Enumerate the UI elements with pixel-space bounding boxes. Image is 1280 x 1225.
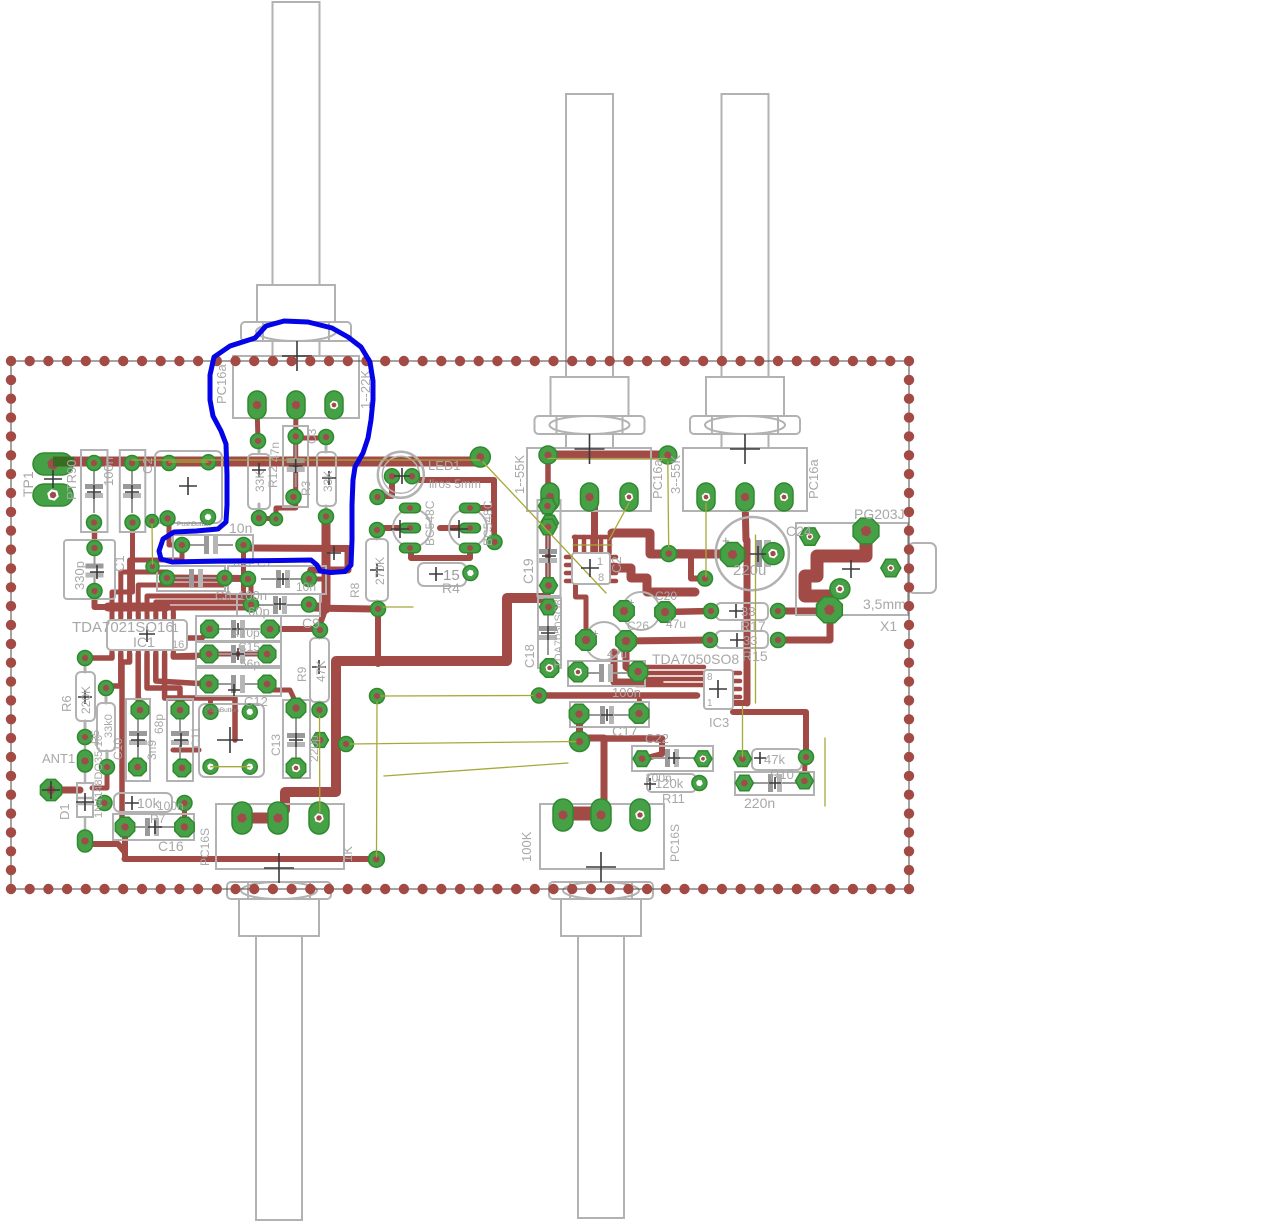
pushbutton S1 outline <box>155 451 222 523</box>
svg-text:C2: C2 <box>140 457 155 474</box>
C12 pads <box>200 675 218 693</box>
R9 pads <box>313 623 328 638</box>
capacitor C22 outline <box>632 746 713 771</box>
vias pot P2 net <box>539 446 557 464</box>
capacitor C13 outline <box>283 700 310 778</box>
wire D1 bottom right <box>85 844 125 852</box>
svg-text:1: 1 <box>172 621 179 635</box>
wire 330p bottom to IC1 <box>95 591 111 607</box>
LED1 outline <box>378 452 424 498</box>
board outline dotted border <box>11 361 909 889</box>
C23 pads <box>735 775 753 791</box>
C17 pads <box>569 704 588 723</box>
svg-text:16: 16 <box>172 639 184 651</box>
wire R5 bottom <box>92 767 107 788</box>
wire IC2 right elbows <box>612 533 727 554</box>
svg-text:3,5mm: 3,5mm <box>863 596 906 612</box>
wire C3 top link R2 <box>296 436 326 441</box>
svg-text:R17: R17 <box>740 618 766 634</box>
wire ring548 down to C19 <box>545 455 551 607</box>
svg-text:33K: 33K <box>321 471 335 492</box>
capacitor C6 outline row C <box>237 594 320 616</box>
capacitor C14 outline <box>196 616 281 641</box>
airwire S2 <box>211 766 250 768</box>
capacitor C8 68p outline <box>167 699 193 781</box>
svg-text:R4: R4 <box>442 580 460 596</box>
wire row B bridge <box>167 575 248 583</box>
resistor R2 outline <box>317 452 336 506</box>
capacitor C15 outline <box>196 642 281 666</box>
resistor R15 outline <box>716 631 768 648</box>
svg-text:+: + <box>722 533 730 548</box>
wire pot P1 left pad down <box>257 405 258 441</box>
wire pot P2 mid down to IC2 <box>590 497 595 553</box>
D1 bottom pad <box>78 830 93 852</box>
airwire R9 to pot P4 <box>319 716 321 812</box>
resistor R5 outline <box>97 703 115 751</box>
svg-text:IC1: IC1 <box>133 634 155 650</box>
airwire sloped <box>384 763 568 776</box>
svg-text:TP1: TP1 <box>20 471 36 497</box>
svg-text:C10: C10 <box>111 738 125 760</box>
capacitor column A outline <box>81 450 108 532</box>
wire via P3 elbow <box>691 554 705 579</box>
potentiometer P2 collar <box>551 377 629 416</box>
svg-text:220p: 220p <box>307 735 321 762</box>
wire C3 through <box>293 436 298 496</box>
potentiometer P5 shaft <box>578 936 624 1218</box>
wire IC3 to R10 <box>733 712 806 757</box>
svg-text:R6: R6 <box>59 695 74 712</box>
via pad right of main net <box>470 447 490 467</box>
airwire ring667 down <box>667 462 670 547</box>
via bottom net <box>368 851 384 867</box>
C19 pads <box>539 498 557 514</box>
wire comb above IC1 <box>112 592 133 616</box>
wire C1 down to comb <box>130 523 135 592</box>
R11 pad <box>692 776 707 791</box>
svg-text:C2: C2 <box>609 556 624 573</box>
wire C26 right to R17 <box>665 611 711 612</box>
svg-text:PC16a: PC16a <box>650 458 665 499</box>
C8 pads <box>171 701 189 719</box>
C18 pads <box>540 599 558 615</box>
svg-text:PC16a: PC16a <box>806 458 821 499</box>
C4 pads <box>160 571 175 586</box>
wire bottom long net <box>125 856 377 862</box>
svg-text:C24: C24 <box>786 523 812 539</box>
potentiometer P1 neck <box>273 341 320 356</box>
wire IC2 left vertical <box>576 537 587 636</box>
capacitor C12 outline <box>196 668 281 696</box>
330p pads <box>87 541 102 556</box>
svg-text:8: 8 <box>598 572 604 584</box>
via C17 below <box>570 732 590 752</box>
wire R7 right down <box>182 803 187 827</box>
potentiometer P5 body <box>540 804 664 869</box>
wire IC3 right to pot3 net <box>733 700 747 706</box>
pushbutton S2 outline <box>199 704 264 777</box>
potentiometer P1 shaft <box>273 2 320 285</box>
transistor T2 outline <box>449 509 487 547</box>
R4 pad <box>463 566 478 581</box>
svg-text:100n: 100n <box>157 799 184 813</box>
svg-text:TDA7050SO8: TDA7050SO8 <box>652 651 739 667</box>
wire ANT1 <box>51 787 80 794</box>
wire pot P1 mid pad down <box>293 405 298 436</box>
svg-text:100n: 100n <box>238 588 267 603</box>
wire C7 right stub <box>241 545 246 570</box>
svg-text:1K: 1K <box>340 846 355 862</box>
capacitor C21 outline <box>568 661 645 686</box>
svg-text:R11: R11 <box>662 791 685 806</box>
C14 pads <box>201 620 219 638</box>
resistor R10 outline <box>752 749 802 770</box>
svg-text:PC16a: PC16a <box>214 363 229 404</box>
resistor R11 outline <box>647 774 696 792</box>
svg-text:PushButton: PushButton <box>205 707 239 714</box>
svg-text:C1: C1 <box>112 555 127 572</box>
svg-text:PushButton: PushButton <box>177 521 211 528</box>
svg-text:8: 8 <box>707 672 713 683</box>
C22 pads <box>633 751 651 767</box>
cap A pads <box>87 456 102 471</box>
wire R10-C23 link <box>802 760 808 781</box>
capacitor C26 outline <box>622 592 660 630</box>
svg-text:BC548C: BC548C <box>481 500 495 546</box>
wire pot P2 left stub <box>547 497 553 523</box>
wire TP1 main horizontal net <box>53 457 480 467</box>
svg-text:47k: 47k <box>764 752 785 767</box>
svg-text:3--55K: 3--55K <box>668 455 683 494</box>
svg-text:R15: R15 <box>742 648 768 664</box>
wire pot P4 riser to right net <box>278 598 548 818</box>
svg-text:220K: 220K <box>79 686 93 714</box>
svg-text:3n9: 3n9 <box>145 740 159 760</box>
C6 pads <box>244 597 259 612</box>
wire row pads right links <box>309 577 321 582</box>
airwire along main net <box>132 459 480 461</box>
airwire long y695 <box>381 695 533 698</box>
potentiometer P5 nut <box>549 882 653 899</box>
svg-text:47u: 47u <box>607 647 627 661</box>
R12 pads <box>251 434 266 449</box>
svg-text:TDA7021SO16: TDA7021SO16 <box>72 619 174 636</box>
wire IC3 left bus <box>636 665 704 670</box>
wire y695 to IC3 <box>545 692 697 699</box>
svg-text:PTR90: PTR90 <box>64 460 79 500</box>
svg-text:47n: 47n <box>268 442 282 462</box>
wire elco C24 feed <box>669 549 727 558</box>
R5 pads <box>99 681 114 696</box>
capacitor C3 outline <box>283 426 308 507</box>
pot P4 pads <box>232 802 252 834</box>
capacitor C16 outline <box>113 814 194 840</box>
svg-text:C19: C19 <box>520 558 536 584</box>
potentiometer P3 collar <box>706 377 784 416</box>
capacitor C23 220n outline <box>735 772 814 795</box>
svg-text:C9: C9 <box>302 615 320 631</box>
wire pot P5 riser <box>563 720 604 815</box>
op-amp IC1 TDA7021SO16 outline <box>107 620 187 650</box>
wire R2 down long to R9 <box>322 517 331 609</box>
wire pot P5 bridge <box>563 810 601 821</box>
svg-text:270K: 270K <box>373 557 387 585</box>
wire C17 via link <box>576 716 582 741</box>
svg-text:C20: C20 <box>655 589 677 603</box>
svg-text:33k0: 33k0 <box>103 714 115 738</box>
airwire diagonal LED to IC2 <box>483 462 606 593</box>
wire pot P3 mid long down <box>745 497 747 703</box>
svg-text:PC16S: PC16S <box>198 828 212 866</box>
svg-text:IC3: IC3 <box>709 715 729 730</box>
wire fan below IC1 <box>88 654 112 658</box>
R8 pads <box>370 523 385 538</box>
T1 pads <box>370 490 385 505</box>
C25 pads <box>576 630 596 650</box>
svg-text:PC16S: PC16S <box>668 824 682 862</box>
resistor R6 outline <box>76 672 95 721</box>
wire S2 top <box>208 698 213 711</box>
potentiometer P4 shaft <box>256 936 302 1220</box>
potentiometer P5 collar <box>561 899 641 936</box>
capacitor C4 outline row B left <box>157 566 225 591</box>
pad under P2 left <box>541 515 559 531</box>
airwire x756 C24 to IC3 <box>755 535 757 703</box>
svg-text:C17: C17 <box>612 723 638 739</box>
svg-text:C26: C26 <box>627 619 649 633</box>
svg-text:10n: 10n <box>229 520 252 536</box>
svg-text:220u: 220u <box>733 562 766 579</box>
IC2 pins and bus <box>566 555 572 560</box>
wire pot P4 pads bridge <box>242 813 278 824</box>
resistor R17 outline <box>716 603 768 620</box>
airwire vertical x376 <box>376 702 379 857</box>
wire LED left pad down <box>379 478 392 496</box>
via P3 left <box>698 571 713 586</box>
via 668 <box>661 546 677 562</box>
vias x152 <box>146 515 159 528</box>
airwire x152 <box>151 524 154 564</box>
C7 pads <box>175 538 190 553</box>
C21 pads <box>568 662 587 681</box>
wire T1-T2 links <box>378 525 411 531</box>
svg-text:C13: C13 <box>269 734 283 756</box>
capacitor C24 outline <box>716 517 789 590</box>
svg-text:C6: C6 <box>215 588 232 603</box>
svg-text:R10: R10 <box>770 767 794 782</box>
svg-text:100n: 100n <box>612 685 641 700</box>
IC1 pins <box>110 614 115 621</box>
C1 pads <box>125 456 140 471</box>
jack X1 outline <box>796 523 908 615</box>
airwire R10 <box>742 706 744 757</box>
resistor R7 10k outline <box>114 793 172 812</box>
op-amp IC3 outline <box>704 670 733 709</box>
svg-text:C12: C12 <box>244 694 268 709</box>
svg-text:47u: 47u <box>666 617 686 631</box>
svg-text:R3: R3 <box>299 480 313 496</box>
svg-text:C22: C22 <box>645 731 669 746</box>
D1 top pad <box>78 750 93 772</box>
capacitor C18 outline <box>538 598 561 668</box>
via 539 <box>532 688 547 703</box>
airwire x825 <box>824 738 826 806</box>
airwire over bus <box>573 544 612 546</box>
IC3 pins <box>733 671 740 676</box>
svg-text:120k: 120k <box>655 776 684 791</box>
svg-text:1N4148DO35-10: 1N4148DO35-10 <box>93 735 105 818</box>
airwire S1 <box>169 461 208 463</box>
pot P1 pads <box>248 391 266 419</box>
R6 pads <box>78 651 93 666</box>
potentiometer P3 nut <box>690 416 800 434</box>
svg-text:X1: X1 <box>880 618 897 634</box>
svg-text:R12: R12 <box>266 466 280 488</box>
svg-text:33: 33 <box>743 633 757 648</box>
wire C25 right down <box>626 641 634 672</box>
svg-text:60p: 60p <box>248 604 270 619</box>
LED1 pads <box>385 469 400 484</box>
via x377 <box>370 689 385 704</box>
pot P3 pads <box>697 483 715 511</box>
wire C16 left to bottom net <box>122 827 128 859</box>
wire cap row horizontals <box>186 631 208 638</box>
svg-text:D1: D1 <box>57 803 72 820</box>
C10 pads <box>131 701 149 719</box>
airwire at R8 <box>383 606 413 608</box>
potentiometer P3 neck <box>722 434 769 448</box>
wire capA to 330p <box>92 523 98 548</box>
potentiometer P2 shaft <box>566 94 613 377</box>
pot P5 pads <box>553 799 573 831</box>
svg-text:10n: 10n <box>296 580 316 594</box>
airwire long y742 <box>350 742 576 745</box>
R17 pads <box>704 604 719 619</box>
S2 pads <box>203 704 218 719</box>
svg-text:LED1: LED1 <box>428 458 461 473</box>
svg-text:C11: C11 <box>189 727 203 748</box>
svg-text:56p: 56p <box>240 657 260 671</box>
potentiometer P4 nut <box>227 882 331 899</box>
capacitor C17 outline <box>570 702 649 727</box>
capacitor C7 outline <box>173 535 253 563</box>
op-amp IC2 outline <box>572 553 610 584</box>
capacitor C19 outline <box>538 500 561 596</box>
blue freehand annotation <box>159 321 373 573</box>
svg-text:330p: 330p <box>72 561 87 590</box>
svg-text:100n: 100n <box>101 457 116 486</box>
R15 pads <box>703 633 718 648</box>
potentiometer P3 shaft <box>722 94 769 377</box>
resistor R9 outline <box>310 638 329 702</box>
via at riser <box>339 737 354 752</box>
wire branch y548 <box>244 548 349 577</box>
ANT1 pad <box>40 779 61 800</box>
capacitor C1 outline <box>120 450 146 532</box>
potentiometer P2 nut <box>535 416 645 434</box>
svg-text:68p: 68p <box>152 714 166 734</box>
wire C13 top from row3 <box>267 690 296 707</box>
svg-text:100K: 100K <box>519 831 534 862</box>
X1 pads <box>853 518 879 544</box>
svg-text:R9: R9 <box>295 666 309 682</box>
svg-text:ANT1: ANT1 <box>42 751 75 766</box>
C5 pads <box>241 572 256 587</box>
svg-text:+: + <box>628 597 634 609</box>
potentiometer P4 collar <box>239 899 319 936</box>
svg-text:C3: C3 <box>305 428 319 444</box>
R2 pads <box>319 430 334 445</box>
airwire P2 right <box>609 503 629 540</box>
T2 pads <box>460 503 481 513</box>
wire LED right pad to T2 <box>412 480 494 542</box>
C3 pads <box>288 429 303 444</box>
svg-text:1: 1 <box>707 698 713 709</box>
svg-text:C16: C16 <box>158 838 184 854</box>
svg-text:PG203J: PG203J <box>854 506 905 522</box>
capacitor 330p outline <box>64 540 115 599</box>
svg-text:33: 33 <box>741 604 755 619</box>
via 276 <box>270 513 283 526</box>
potentiometer P2 neck <box>566 434 613 448</box>
diode D1 outline <box>77 783 93 817</box>
test point TP1 pads <box>33 453 73 475</box>
svg-text:33K: 33K <box>253 471 267 492</box>
svg-text:C18: C18 <box>522 644 537 668</box>
C24 pads <box>721 543 745 567</box>
svg-text:BC548C: BC548C <box>423 500 437 546</box>
svg-text:47K: 47K <box>314 661 328 682</box>
C26 pads <box>614 601 634 621</box>
svg-text:220n: 220n <box>744 795 775 811</box>
svg-text:TDA7050SO8: TDA7050SO8 <box>553 600 565 668</box>
airwire P3 left <box>705 503 707 577</box>
svg-text:+: + <box>592 628 598 640</box>
wire X1 staircase <box>805 531 866 610</box>
resistor R8 outline <box>366 539 388 601</box>
svg-text:1--55K: 1--55K <box>512 455 527 494</box>
transistor T1 outline <box>393 509 431 547</box>
C13 pads <box>286 698 305 717</box>
potentiometer P1 nut <box>241 322 351 341</box>
resistor R12 outline <box>248 454 270 509</box>
wire C17 right down <box>637 700 642 716</box>
wire C25 right to R15 <box>626 640 710 641</box>
capacitor C25 outline <box>585 622 623 660</box>
C15 pads <box>200 645 218 663</box>
svg-text:470p: 470p <box>233 626 260 640</box>
wire pot P2 top net <box>548 451 668 460</box>
S1 pads <box>162 456 177 471</box>
airwire along pot P2 net <box>548 458 667 460</box>
capacitor C5 outline row B right <box>228 566 326 594</box>
svg-text:R8: R8 <box>348 582 362 598</box>
svg-text:1: 1 <box>597 556 603 568</box>
wire R15 right <box>778 614 830 640</box>
wire bus band above IC1 <box>108 603 166 612</box>
wire S1 to C7 <box>169 519 182 545</box>
wire riser branch to C22 <box>604 735 662 742</box>
R10 pads <box>734 751 752 767</box>
potentiometer P1 collar <box>257 285 335 322</box>
resistor R4 outline <box>418 563 466 586</box>
C16 pads <box>115 817 134 836</box>
wire R17 right <box>778 608 826 615</box>
pot P2 pads <box>541 483 559 511</box>
R7 pads <box>97 796 112 811</box>
via near 220p <box>312 733 329 748</box>
